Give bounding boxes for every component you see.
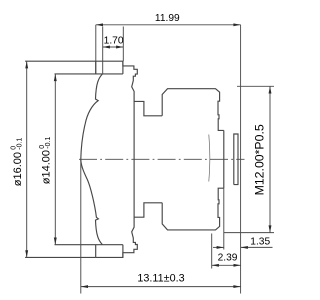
cap top profile [96,61,163,116]
rear small tube / filter [234,134,238,185]
M12 thread block [162,89,224,131]
13.11 left arrow [81,285,88,288]
ext 13.11 left [80,159,82,293]
dim 13.11 line [81,286,241,288]
M12 ext top [237,85,274,87]
svg-text:ø16.00: ø16.00 [12,152,24,186]
arrowheads [25,23,271,288]
svg-text:1.35: 1.35 [250,236,270,247]
interior rear element arc [209,135,210,182]
11.99 right arrow [233,23,240,26]
ø16 extension bottom [25,256,96,258]
M12 dim line [269,86,271,232]
ø16 extension top (merges with cap top edge) [25,60,96,62]
cap rear step vertical at 122.9 bottom [122,245,124,258]
dim 1.35 line left tail [213,246,224,248]
ø14 top arrow [54,74,57,81]
dim 2.39 line [212,264,241,266]
dim text ø14.00 with tolerance [39,137,53,185]
ø14 dim line [54,74,56,245]
2.39 right arrow [234,264,241,267]
dim 1.70 line [103,46,124,48]
lens front element curve [81,74,103,244]
cap rear face upper vertical (between notches crossing axis) [133,101,135,217]
1.70 left arrow [103,46,110,49]
M12 top arrow [269,86,272,93]
2.39 left arrow [212,264,219,267]
M12 bottom arrow [269,225,272,232]
ext 1.70 left [102,27,104,75]
center line [79,158,245,160]
svg-text:1.70: 1.70 [104,36,124,47]
11.99 left arrow [96,23,103,26]
cap bottom profile (mirror) [96,203,163,258]
bore line bottom (also ø14 extension) [55,244,123,246]
bore line top (also ø14 extension) [55,73,123,75]
svg-text:2.39: 2.39 [218,252,238,263]
ø16 dim line [26,61,28,257]
rear tube face line [223,130,225,188]
ø16 top arrow [25,61,28,68]
dim 1.35 line right tail [241,246,273,248]
svg-text:13.11±0.3: 13.11±0.3 [137,273,184,285]
svg-text:ø14.00: ø14.00 [41,150,53,184]
dim text ø16.00 with tolerance [10,138,24,187]
1.70 right arrow [116,46,123,49]
ext 1.70 right [122,27,124,62]
M12 ext bottom [224,232,274,234]
ø14 bottom arrow [54,238,57,245]
1.35 right arrow (pointing left) [241,246,248,249]
dim text M12.00*P0.5 [253,124,267,195]
svg-text:-0.1: -0.1 [45,137,52,149]
svg-text:-0.1: -0.1 [16,138,23,150]
rear face line + 11.99/13.11 right extension [240,25,242,294]
ext 1.35 left (tube face ext) [223,188,225,249]
ext 11.99 left [95,25,97,74]
dim 11.99 line [96,24,241,26]
svg-text:M12.00*P0.5: M12.00*P0.5 [253,124,267,195]
ext 2.39 left [211,234,213,269]
13.11 right arrow [233,285,240,288]
1.35 left arrow (pointing right) [217,246,224,249]
svg-text:11.99: 11.99 [155,13,180,24]
ø16 bottom arrow [25,250,28,257]
cap rear step vertical at 122.9 top [122,61,124,74]
